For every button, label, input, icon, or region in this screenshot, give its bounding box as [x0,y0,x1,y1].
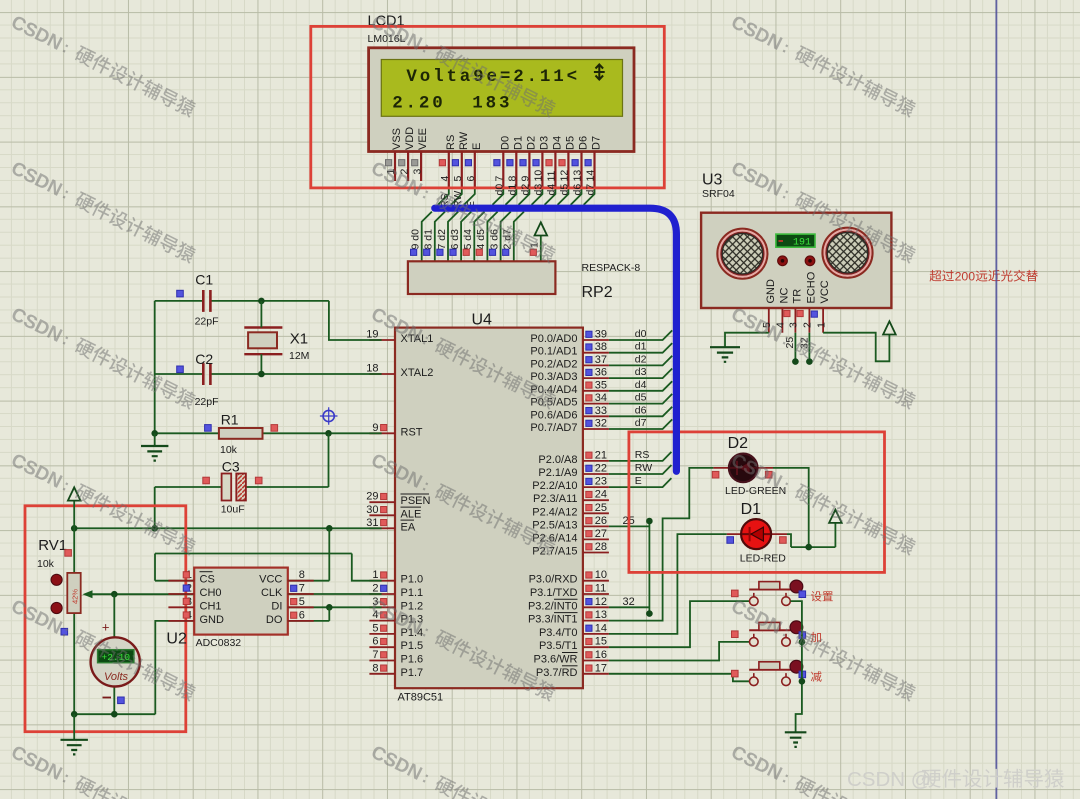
button MINUS label [811,671,822,682]
svg-text:RW: RW [635,462,652,474]
LCD pin D4 wire [554,151,556,188]
U4 pin 30 ALE [369,514,395,516]
svg-text:U4: U4 [472,312,493,329]
svg-text:E: E [471,143,483,150]
svg-text:RST: RST [401,426,423,438]
svg-text:P3.7/RD: P3.7/RD [536,667,578,679]
svg-text:d0: d0 [635,328,647,340]
capacitor C2 [203,363,210,385]
svg-text:17: 17 [595,662,607,674]
svg-text:d7: d7 [585,184,597,196]
svg-text:30: 30 [366,504,378,516]
svg-text:28: 28 [595,541,607,553]
svg-text:3 d6: 3 d6 [488,229,500,250]
U4 pin 31 EA [369,527,395,529]
LCD pin E wire [474,151,476,188]
LCD pin D6 wire [580,151,582,188]
svg-text:12: 12 [595,596,607,608]
wire C1 net top [155,300,203,302]
svg-text:d6: d6 [635,404,647,416]
svg-text:d0: d0 [494,184,506,196]
svg-text:D4: D4 [551,136,563,150]
svg-text:U2: U2 [166,631,187,648]
svg-text:LED-RED: LED-RED [740,553,787,565]
capacitor C1 [203,290,210,312]
svg-text:CH1: CH1 [200,600,222,612]
U4 pin 29 PSEN [369,501,395,503]
bus wire (blue) LCD to U4 [435,208,677,471]
svg-text:R1: R1 [221,412,239,428]
svg-text:VDD: VDD [404,127,416,150]
svg-text:P1.0: P1.0 [401,574,424,586]
svg-text:29: 29 [366,491,378,503]
wire bus to RP2 pin 5 (d4) [474,212,484,262]
wire P2.2 to bus with label E [609,478,672,487]
U2 pin 1 CS wire to P1.0 [155,580,194,582]
svg-text:P3.0/RXD: P3.0/RXD [529,574,578,586]
svg-text:P0.2/AD2: P0.2/AD2 [530,358,577,370]
svg-text:D0: D0 [499,136,511,150]
LCD pin D3 wire [541,151,543,188]
svg-text:22: 22 [595,463,607,475]
svg-text:2.20 183: 2.20 183 [392,94,512,114]
svg-text:RP2: RP2 [582,284,613,301]
svg-text:7: 7 [494,176,506,182]
svg-text:14: 14 [585,170,597,182]
svg-text:P1.1: P1.1 [401,587,424,599]
wire bus to RP2 pin 9 (d0) [422,212,432,262]
svg-text:38: 38 [595,341,607,353]
wire P3.7 pin17 to button MINUS [609,674,749,682]
wire P3.5 pin15 to button SET [609,601,749,647]
wire P2.1 to bus with label RW [609,465,672,474]
LCD pin RS wire [448,151,450,188]
U4 pin 39 P0.0 [583,339,609,341]
wire P0.2 to bus with label d2 [609,356,672,366]
svg-text:32: 32 [623,596,635,608]
svg-text:9: 9 [520,176,532,182]
U4 pin 38 P0.1 [583,352,609,354]
annotation chinese red [930,270,942,282]
U4 pin 2 P1.1 [369,593,395,595]
svg-text:9: 9 [372,422,378,434]
LCD pin D5 wire [567,151,569,188]
RV1 terminal balls [51,574,62,585]
svg-text:RV1: RV1 [38,537,67,554]
wire XTAL1 [329,301,382,340]
svg-text:3: 3 [411,169,423,175]
svg-text:d2: d2 [635,353,647,365]
svg-text:5 d4: 5 d4 [462,229,474,250]
wire D1 right to power node [787,534,791,547]
svg-text:34: 34 [595,392,607,404]
svg-text:VEE: VEE [417,128,429,150]
U4 pin 8 P1.7 [369,673,395,675]
button PLUS [749,621,803,646]
U2 pin 5 DI wire to P1.2 [288,606,382,608]
wire bus to RP2 pin 7 (d2) [448,212,458,262]
LCD pin RW wire [461,151,463,188]
LCD pin D0 wire [502,151,504,188]
svg-text:P1.6: P1.6 [401,654,424,666]
RV1 wiper arrow [86,593,114,595]
svg-text:P3.3/INT1: P3.3/INT1 [528,614,578,626]
ground under buttons [785,732,807,747]
svg-text:RS: RS [635,449,650,461]
svg-text:ADC0832: ADC0832 [196,637,242,649]
power arrow above RV1 [73,501,75,529]
U4 pin 5 P1.4 [369,633,395,635]
U4 pin 27 P2.6 [583,538,609,540]
U4 pin 9 RST [369,432,395,434]
svg-text:5: 5 [372,622,378,634]
svg-text:D1: D1 [741,501,762,518]
svg-text:22pF: 22pF [195,316,219,328]
svg-text:19: 19 [366,329,378,341]
wire net 32 from P3.2 pin12 [609,606,650,608]
RP2 pin 1 power arrow [540,236,542,262]
LCD LM016L body [369,48,634,152]
svg-text:2: 2 [802,322,814,328]
LCD custom char arrow [594,65,605,80]
U4 pin 36 P0.3 [583,377,609,379]
svg-text:39: 39 [595,329,607,341]
svg-text:6: 6 [372,636,378,648]
svg-text:RW: RW [458,131,470,150]
svg-text:200: 200 [955,270,976,284]
svg-text:7 d2: 7 d2 [436,229,448,250]
svg-text:VCC: VCC [819,280,831,303]
svg-text:d4: d4 [635,379,647,391]
U3 TR wire net 25 [794,333,796,362]
svg-text:36: 36 [595,367,607,379]
wire button chain to ground [790,601,802,732]
wire C3 to EA net [154,487,156,528]
svg-text:P2.2/A10: P2.2/A10 [532,480,577,492]
svg-text:10: 10 [595,569,607,581]
U4 pin 1 P1.0 [369,580,395,582]
svg-text:42%: 42% [71,589,80,604]
svg-text:10k: 10k [37,558,55,570]
svg-text:8: 8 [372,662,378,674]
U2 pin 6 DO wire [288,620,330,622]
svg-text:18: 18 [366,363,378,375]
svg-text:D2: D2 [525,136,537,150]
U4 pin 35 P0.4 [583,390,609,392]
svg-text:P3.2/INT0: P3.2/INT0 [528,600,578,612]
U3 right transducer [823,228,873,278]
LCD1 red highlight box [311,26,665,188]
svg-text:26: 26 [595,515,607,527]
svg-text:8: 8 [507,176,519,182]
wire bus to RP2 pin 8 (d1) [435,212,445,262]
svg-text:ECHO: ECHO [805,271,817,303]
svg-text:3: 3 [788,322,800,328]
power arrow LED block [834,523,836,547]
svg-text:d6: d6 [572,184,584,196]
svg-text:P3.6/WR: P3.6/WR [533,654,577,666]
svg-text:P0.6/AD6: P0.6/AD6 [530,409,577,421]
U4 pin 3 P1.2 [369,606,395,608]
wire U2 GND riser [155,621,194,714]
svg-text:GND: GND [200,614,225,626]
svg-text:7: 7 [372,649,378,661]
svg-text:GND: GND [765,279,777,304]
U3 pin 2 ECHO stub [808,308,810,333]
bottom wire RV1 net [74,713,155,715]
svg-text:5: 5 [452,176,464,182]
svg-text:P2.1/A9: P2.1/A9 [538,467,577,479]
U4 pin 4 P1.3 [369,620,395,622]
U4 pin 15 P3.5 [583,646,609,648]
svg-text:25: 25 [595,502,607,514]
svg-text:6: 6 [299,609,305,621]
LED D1 (red, on) [727,533,787,535]
svg-text:4 d5: 4 d5 [475,229,487,250]
wire bus to RP2 pin 4 (d5) [487,212,497,262]
svg-text:6 d3: 6 d3 [449,229,461,250]
U3 pin 4 NC stub [781,308,783,333]
svg-text:Volta9e=2.11<: Volta9e=2.11< [406,67,580,87]
svg-text:P0.0/AD0: P0.0/AD0 [530,333,577,345]
wire bus to RP2 pin 2 (d7) [514,212,524,262]
svg-text:11: 11 [595,583,606,595]
node RST junction [325,430,332,437]
svg-text:P0.1/AD1: P0.1/AD1 [530,346,577,358]
LCD pin D1 wire [515,151,517,188]
U4 pin 32 P0.7 [583,428,609,430]
U4 pin 6 P1.5 [369,646,395,648]
svg-text:XTAL2: XTAL2 [401,367,434,379]
U4 pin 23 P2.2 [583,486,609,488]
svg-text:2: 2 [372,583,378,595]
svg-text:24: 24 [595,489,607,501]
svg-text:PSEN: PSEN [401,495,431,507]
svg-text:D3: D3 [538,136,550,150]
svg-text:X1: X1 [290,331,308,348]
LCD pin VDD wire [407,151,409,181]
wire P3.3 pin13 to LED D2 [609,468,714,621]
U4 pin 16 P3.6 [583,660,609,662]
U4 pin 19 XTAL1 [369,339,395,341]
svg-text:14: 14 [595,622,607,634]
node X1 top junction [258,298,265,305]
svg-text:22pF: 22pF [195,396,219,408]
wire P3.6 pin16 to button PLUS [609,642,749,661]
svg-text:P2.4/A12: P2.4/A12 [532,506,577,518]
U4 pin 22 P2.1 [583,473,609,475]
svg-text:VSS: VSS [391,128,403,150]
svg-text:37: 37 [595,354,607,366]
svg-text:RESPACK-8: RESPACK-8 [582,262,641,274]
svg-text:D5: D5 [564,136,576,150]
wire C2 net / XTAL2 [155,373,203,375]
wire P0.0 to bus with label d0 [609,330,672,340]
U4 pin 21 P2.0 [583,460,609,462]
svg-text:C2: C2 [195,351,213,367]
power arrow U3 [883,321,896,334]
wire P0.4 to bus with label d4 [609,381,672,391]
crosshair marker [320,407,338,425]
svg-text:32: 32 [595,418,607,430]
svg-text:d3: d3 [533,184,545,196]
svg-text:6: 6 [465,176,477,182]
svg-text:10: 10 [533,170,545,182]
svg-text:P1.5: P1.5 [401,640,424,652]
svg-text:P3.1/TXD: P3.1/TXD [530,587,578,599]
svg-text:U3: U3 [702,172,723,189]
U4 pin 18 XTAL2 [369,373,395,375]
svg-text:AT89C51: AT89C51 [398,692,444,704]
U4 pin 13 P3.3 [583,620,609,622]
U4 pin 14 P3.4 [583,633,609,635]
voltmeter [113,594,115,637]
svg-text:12: 12 [559,170,571,182]
button SET label [811,591,822,601]
wire P0.3 to bus with label d3 [609,369,672,379]
U4 pin 17 P3.7 [583,673,609,675]
svg-text:TR: TR [791,289,803,304]
U4 pin 25 P2.4 [583,512,609,514]
wire P2.0 to bus with label RS [609,452,672,461]
U3 indicator balls [778,256,788,266]
U3 ECHO wire net 32 [808,333,810,362]
svg-text:DI: DI [271,600,282,612]
U3 pin 3 TR stub [794,308,796,333]
svg-text:13: 13 [595,609,607,621]
microcontroller U4 AT89C51 body [395,328,583,689]
U2 pin 8 VCC wire [288,580,330,582]
U3 left transducer [717,229,767,279]
watermark pattern CSDN (overlay) [8,12,198,121]
LCD pin VEE wire [420,151,422,181]
svg-text:D1: D1 [512,136,524,150]
U2 pin stubs [168,580,194,582]
wire wiper to U2 CH0 [114,593,194,595]
button PLUS label [811,632,821,642]
U3 pin 1 VCC stub [822,308,824,333]
U2 pin 7 CLK wire to P1.1 [288,593,382,595]
crystal X1 12M [244,328,282,355]
svg-text:d1: d1 [635,341,647,353]
wire D2 right to power node [773,468,809,547]
svg-text:P2.0/A8: P2.0/A8 [538,454,577,466]
svg-text:SRF04: SRF04 [702,188,735,200]
svg-text:VCC: VCC [259,574,282,586]
svg-text:11: 11 [546,170,558,181]
svg-text:D7: D7 [591,136,603,150]
svg-text:d5: d5 [559,184,571,196]
U4 pin 12 P3.2 [583,606,609,608]
ground under RV1 [73,714,75,740]
svg-text:P2.5/A13: P2.5/A13 [532,519,577,531]
svg-text:d5: d5 [635,392,647,404]
svg-text:E: E [635,475,642,487]
svg-text:C3: C3 [222,459,240,475]
U4 pin 33 P0.6 [583,415,609,417]
svg-text:DO: DO [266,614,283,626]
wire bus to RP2 pin 6 (d3) [461,212,471,262]
left vertical wire C1/C2 to ground [154,301,156,433]
svg-text:27: 27 [595,528,607,540]
svg-text:191: 191 [793,238,811,249]
svg-text:NC: NC [778,288,790,304]
node R1 left / ground [151,430,158,437]
wire P0.1 to bus with label d1 [609,343,672,353]
svg-text:8: 8 [299,569,305,581]
ADC U2 ADC0832 body [194,568,288,635]
svg-text:P0.3/AD3: P0.3/AD3 [530,371,577,383]
U4 pin 34 P0.5 [583,403,609,405]
svg-text:10uF: 10uF [221,504,245,516]
button SET [749,580,803,605]
svg-text:CH0: CH0 [200,587,222,599]
RV1 red highlight box [25,506,186,732]
svg-text:d4: d4 [546,184,558,196]
U3 VCC wire to power [823,333,889,362]
U3 GND wire to ground [725,333,769,348]
svg-text:16: 16 [595,649,607,661]
svg-text:EA: EA [401,521,416,533]
LCD pin D7 wire [593,151,595,188]
svg-text:Volts: Volts [104,671,129,683]
potentiometer RV1 [73,528,75,573]
U3 pin 5 GND stub [768,308,770,333]
U3 distance display 191 [776,234,815,247]
svg-text:5: 5 [299,596,305,608]
LCD green screen [381,60,622,117]
wire bus to RP2 pin 3 (d6) [501,212,511,262]
svg-text:13: 13 [572,170,584,182]
U4 pin 10 P3.0 [583,580,609,582]
svg-text:10k: 10k [220,444,238,456]
svg-text:33: 33 [595,405,607,417]
svg-text:35: 35 [595,379,607,391]
svg-text:RS: RS [445,135,457,150]
svg-text:4: 4 [439,176,451,182]
resistor R1 [155,432,219,434]
svg-text:9 d0: 9 d0 [410,229,422,250]
U4 pin 11 P3.1 [583,593,609,595]
svg-text:d1: d1 [507,184,519,196]
svg-text:d7: d7 [635,417,647,429]
svg-text:d2: d2 [520,184,532,196]
svg-text:P3.5/T1: P3.5/T1 [539,640,578,652]
svg-text:+: + [102,620,110,635]
svg-text:P0.7/AD7: P0.7/AD7 [530,422,577,434]
wire net 25 from P2.5 pin26 [609,525,650,527]
svg-text:1: 1 [372,569,378,581]
svg-text:P3.4/T0: P3.4/T0 [539,627,578,639]
sensor U3 SRF04 body [701,213,891,308]
svg-text:CSDN @: CSDN @ [847,768,932,791]
LCD pin D2 wire [528,151,530,188]
vertical indigo rule [995,0,997,799]
svg-text:15: 15 [595,636,607,648]
svg-text:CLK: CLK [261,587,283,599]
wire P0.6 to bus with label d6 [609,407,672,417]
svg-text:D6: D6 [578,136,590,150]
svg-text:ALE: ALE [401,508,422,520]
svg-text:C1: C1 [195,272,213,288]
svg-text:12M: 12M [289,350,309,362]
resistor pack RP2 body [408,261,556,294]
wire EA net [74,527,381,529]
U4 pin 28 P2.7 [583,552,609,554]
LCD pin VSS wire [394,151,396,181]
U4 pin 26 P2.5 [583,525,609,527]
svg-text:P2.3/A11: P2.3/A11 [533,493,577,505]
